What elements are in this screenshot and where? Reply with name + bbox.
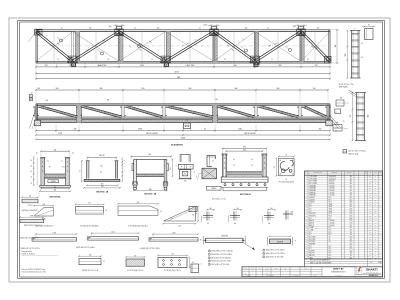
plan left end leader line [29,32,37,43]
svg-text:52.0: 52.0 [369,188,372,190]
svg-text:4.6: 4.6 [329,241,331,243]
section 4A left dimension chain [30,157,37,186]
svg-text:L 75x75x6: L 75x75x6 [329,195,335,197]
svg-text:1 TB6619 156 2 47 TVL 3 T/F 2: 1 TB6619 156 2 47 TVL 3 T/F 2x [20,248,41,250]
detail left of title block [191,263,202,273]
svg-text:1275: 1275 [349,211,352,213]
svg-text:C7: C7 [60,113,62,115]
svg-text:4.6: 4.6 [329,239,331,241]
svg-text:1125: 1125 [349,241,352,243]
svg-text:80.1: 80.1 [369,227,372,229]
plan right end post [329,30,330,63]
bolted plate detail [157,254,194,273]
svg-text:1000: 1000 [349,218,352,220]
svg-text:200x8: 200x8 [329,204,333,206]
svg-text:544: 544 [43,204,46,206]
svg-text:300: 300 [350,176,352,178]
svg-text:29: 29 [307,59,309,61]
svg-text:24: 24 [103,261,105,263]
svg-text:620: 620 [243,150,246,152]
svg-text:968: 968 [177,77,180,79]
svg-text:150x150x10: 150x150x10 [329,178,336,180]
drawing border frame inner [20,22,383,277]
svg-text:1175: 1175 [349,248,352,250]
angle cleat detail 1 [201,208,215,225]
svg-text:46: 46 [368,25,370,27]
svg-text:B4x6 4 B13 x 47 TVL 4 B43 (x): B4x6 4 B13 x 47 TVL 4 B43 (x) [211,257,231,259]
svg-text:OK: OK [379,197,381,199]
right bracket details [333,98,349,131]
svg-text:1,2,3,4: 1,2,3,4 [28,205,33,207]
svg-text:416: 416 [54,149,57,151]
section 4A bottom dims and label [39,187,71,199]
svg-text:C7: C7 [317,113,319,115]
svg-text:140: 140 [209,208,211,210]
svg-text:4x PLT B4 M (150) x B13 (M) 2: 4x PLT B4 M (150) x B13 (M) 2 [128,225,148,227]
elevation top dimension line [35,88,329,92]
svg-text:BOT CHORD: BOT CHORD [309,183,317,185]
svg-text:04/08: 04/08 [266,273,269,275]
plan diagonal member D5 [213,31,255,62]
plan dimension row 3 [35,75,331,80]
svg-text:8.1: 8.1 [369,257,371,259]
drawing names note [22,250,59,256]
svg-text:DECK CHORD: DECK CHORD [244,133,256,135]
svg-text:C7: C7 [238,113,240,115]
svg-text:150: 150 [109,26,112,28]
svg-text:73.6: 73.6 [369,250,372,252]
svg-text:DESCRIPTION: DESCRIPTION [313,172,322,174]
svg-text:242: 242 [374,202,376,204]
svg-text:L 50x50x5: L 50x50x5 [329,225,335,227]
svg-text:200x8: 200x8 [329,206,333,208]
svg-text:L 90x90x6: L 90x90x6 [329,190,335,192]
elevation diagonal E2 [82,105,122,118]
svg-text:25.3: 25.3 [369,204,372,206]
svg-text:PL 6: PL 6 [329,253,332,255]
svg-text:PLT: PLT [309,209,311,211]
svg-text:PLT (175m) (260) (26x4): PLT (175m) (260) (26x4) [279,181,295,183]
svg-text:960: 960 [277,88,280,90]
svg-text:425: 425 [350,185,352,187]
svg-text:W4x6 4 B13 x 47 TVL 1 B43 x: W4x6 4 B13 x 47 TVL 1 B43 x [266,250,285,252]
svg-text:SC: SC [285,268,287,270]
plan vertical web hatched bars [75,32,304,62]
svg-text:350: 350 [350,195,352,197]
svg-text:206: 206 [184,181,186,183]
svg-text:NUT M20: NUT M20 [309,241,315,243]
plan centre line [36,45,330,47]
svg-text:NOTE: PLT 4 x 4 TVL: NOTE: PLT 4 x 4 TVL [339,84,354,86]
angle cleat detail 3 [262,208,276,225]
svg-text:24: 24 [36,152,38,154]
svg-text:225: 225 [374,211,376,213]
svg-text:1,562: 1,562 [111,231,115,233]
svg-text:700: 700 [350,253,352,255]
svg-text:350: 350 [350,243,352,245]
svg-text:PLT: PLT [309,248,311,250]
svg-text:PL 8: PL 8 [329,250,332,252]
svg-text:610: 610 [101,186,104,188]
svg-text:51.5: 51.5 [369,225,372,227]
svg-text:578: 578 [315,65,318,67]
svg-text:DECK CHORD: DECK CHORD [146,133,158,135]
plan view top chord [36,30,330,32]
elevation bottom dimension row 1 [35,124,331,131]
section 3B first bottom dims and label [83,184,120,194]
svg-text:140: 140 [270,208,272,210]
title block drawing title [331,268,346,277]
svg-text:170: 170 [124,166,126,168]
bracket stack detail [176,154,197,182]
svg-text:150: 150 [245,28,248,30]
svg-text:228: 228 [374,199,376,201]
title block small cells text [244,267,317,277]
plan diagonal member D2 [72,31,120,62]
svg-text:STEELWORK TRUSS T1: STEELWORK TRUSS T1 [331,272,346,274]
svg-text:37.6: 37.6 [369,236,372,238]
svg-text:4-6x: 4-6x [336,122,339,124]
small plate with dim 140 [78,255,105,272]
svg-text:150: 150 [157,28,160,30]
svg-text:58.2: 58.2 [369,255,372,257]
length bar detail 1 [200,236,255,251]
svg-text:148: 148 [374,218,376,220]
plan top joint gussets [115,26,305,35]
plan chord annotation speckle [57,28,319,61]
svg-text:29: 29 [251,165,253,167]
section 3B first labels [80,158,126,182]
svg-text:PLT: PLT [309,218,311,220]
svg-text:605: 605 [101,184,104,186]
svg-text:JS-SDC#1 C: JS-SDC#1 C [369,275,380,277]
svg-text:24: 24 [72,152,74,154]
plan left end top gusset [35,29,43,35]
svg-text:SHIM: SHIM [309,257,312,259]
svg-text:1450: 1450 [349,250,352,252]
svg-text:1900: 1900 [140,65,144,67]
svg-text:ELEVATION: ELEVATION [171,143,183,146]
svg-text:160x8: 160x8 [329,211,333,213]
svg-text:DRAFT 'B1': DRAFT 'B1' [333,268,344,271]
svg-text:29: 29 [49,167,51,169]
svg-text:41.8: 41.8 [369,192,372,194]
svg-text:82.9: 82.9 [369,185,372,187]
svg-text:175: 175 [350,255,352,257]
svg-text:40: 40 [207,223,209,225]
elevation right end bearing [326,104,345,133]
svg-text:PLT: PLT [309,232,311,234]
svg-text:4B: 4B [192,214,194,216]
tie bar detail 3 [140,232,199,250]
svg-text:303: 303 [374,213,376,215]
svg-text:545: 545 [137,202,140,204]
company logo [355,267,383,278]
svg-text:M8: M8 [340,98,342,100]
plan thin verticals [54,32,315,62]
right note upper [339,84,354,88]
elevation bottom dimension row 3 [35,137,331,140]
angle cleat detail 2 [228,208,242,225]
section 4A top dimension [36,149,74,157]
svg-text:N: N [306,172,307,174]
svg-text:76.0: 76.0 [369,178,372,180]
triangular gusset detail [163,206,199,228]
section 4A body [40,158,71,188]
tiny clip detail [189,207,197,217]
section 6B top dimension [130,154,172,159]
svg-text:40: 40 [30,160,32,162]
small hatched plate [125,255,145,272]
svg-text:13.6: 13.6 [369,181,372,183]
plan dimension row 1 [35,63,331,68]
svg-text:DECK 1900: DECK 1900 [186,65,195,67]
section 6B feet [133,182,168,190]
svg-text:PLT: PLT [309,246,311,248]
svg-text:PL 6: PL 6 [329,246,332,248]
section 3B first body [84,161,120,182]
svg-text:HE 170: HE 170 [99,155,104,157]
svg-text:CHD: CHD [251,268,254,270]
svg-text:VXB: VXB [30,216,33,218]
svg-text:150: 150 [350,229,352,231]
section 6B body [132,159,169,184]
svg-text:DWG: DWG [304,268,307,270]
svg-text:20: 20 [48,108,50,110]
svg-text:LENGTH: LENGTH [221,236,228,238]
plan diagonal member D1 [35,31,73,62]
svg-text:625: 625 [350,227,352,229]
svg-text:20: 20 [91,108,93,110]
svg-text:4 WTB 302 6 47 TVL 3 G/B 2x: 4 WTB 302 6 47 TVL 3 G/B 2x [76,247,95,249]
svg-text:4B4: 4B4 [291,212,294,214]
svg-text:960: 960 [142,88,145,90]
section 6B bottom dim and label [133,159,173,196]
svg-text:PLT: PLT [309,234,311,236]
svg-text:85.0: 85.0 [369,176,372,178]
svg-text:1 126: 1 126 [69,65,73,67]
elevation diagonal E3 [126,105,163,118]
svg-text:262: 262 [374,227,376,229]
svg-text:314: 314 [374,216,376,218]
svg-text:1125: 1125 [349,213,352,215]
svg-text:4x: 4x [134,28,136,30]
svg-text:20: 20 [304,108,306,110]
svg-text:224: 224 [374,209,376,211]
svg-text:311: 311 [374,241,376,243]
svg-text:337: 337 [374,195,376,197]
svg-text:2180: 2180 [238,129,242,131]
svg-text:OK: OK [379,253,381,255]
svg-text:975: 975 [350,188,352,190]
svg-text:4T: 4T [295,241,297,243]
plan diagonal member D3 [118,31,166,62]
svg-text:25: 25 [343,121,345,123]
svg-text:SECTION - 3B: SECTION - 3B [96,192,109,194]
svg-text:40: 40 [30,171,32,173]
svg-text:700: 700 [350,234,352,236]
svg-text:STIFF PL: STIFF PL [309,250,315,252]
svg-text:OK: OK [379,225,381,227]
tie bar detail 2 [76,231,139,249]
svg-text:173: 173 [374,246,376,248]
elevation top chord [36,104,330,106]
margin plate 1234 detail [21,195,39,212]
svg-text:56: 56 [274,166,276,168]
svg-text:960: 960 [189,88,192,90]
svg-text:C6: C6 [361,43,363,45]
svg-text:TB6619 1762 47 TVL 3 T/F 2x: TB6619 1762 47 TVL 3 T/F 2x [24,225,43,227]
svg-text:150: 150 [37,88,40,90]
elevation vertical posts [35,106,329,123]
svg-text:1175: 1175 [349,220,352,222]
svg-text:775: 775 [350,115,352,118]
svg-text:1025: 1025 [349,209,352,211]
svg-text:96: 96 [134,255,136,257]
svg-text:958: 958 [345,54,347,57]
svg-text:C1: C1 [151,59,153,61]
svg-text:358: 358 [374,223,376,225]
elevation diagonal E6 [259,105,299,118]
bearing pad detail [198,168,217,180]
svg-text:388: 388 [374,229,376,231]
svg-text:B4B6: B4B6 [42,219,46,221]
svg-text:SPLICE PL: SPLICE PL [309,213,316,215]
plan diagonal member D4 [165,31,215,62]
svg-text:1,128: 1,128 [172,232,176,234]
right ladder section upper [345,28,363,79]
elevation bottom dimension row 2 [35,132,331,137]
svg-text:OK: OK [379,188,381,190]
svg-text:PL 2: PL 2 [329,257,332,259]
svg-text:BOLT M16: BOLT M16 [309,239,315,241]
svg-text:C6: C6 [361,57,363,59]
svg-text:SECTION: SECTION [332,172,338,174]
svg-text:968: 968 [279,65,282,67]
svg-text:1300: 1300 [349,202,352,204]
plan peak extension marks [113,24,307,29]
svg-text:140: 140 [100,166,103,168]
svg-text:H4: H4 [46,100,48,102]
section 6G body [221,154,268,191]
svg-text:W4x6 4 B13 x 4T TVL 4 x B43 x: W4x6 4 B13 x 4T TVL 4 x B43 x [211,261,231,263]
svg-text:230: 230 [374,234,376,236]
svg-text:76.9: 76.9 [369,195,372,197]
svg-text:600: 600 [350,257,352,259]
svg-text:GUSSET: GUSSET [309,202,315,204]
svg-text:PLT: PLT [309,206,311,208]
svg-text:4,260: 4,260 [378,262,382,264]
svg-text:150: 150 [317,28,320,30]
elevation diagonal E4 [167,105,214,118]
svg-text:20: 20 [134,108,136,110]
svg-text:450: 450 [350,183,352,185]
section 6G inner labels [233,159,253,167]
svg-text:L 75x75x6: L 75x75x6 [329,192,335,194]
svg-text:175: 175 [80,170,82,172]
svg-text:544: 544 [178,225,181,227]
svg-text:PLT: PLT [309,211,311,213]
svg-text:PL 10: PL 10 [329,213,333,215]
svg-text:BOT CHORD: BOT CHORD [309,181,317,183]
svg-text:1325: 1325 [349,216,352,218]
svg-text:REV: REV [275,268,278,270]
svg-text:150x75x8: 150x75x8 [329,183,335,185]
svg-text:38.0: 38.0 [369,243,372,245]
svg-text:37.2: 37.2 [369,234,372,236]
length bar detail 2 [268,235,297,245]
svg-text:C7: C7 [146,113,148,115]
svg-text:PL 8: PL 8 [329,234,332,236]
svg-text:OK: OK [379,234,381,236]
svg-text:WT: WT [369,172,371,174]
right plug weld note [343,150,366,156]
svg-text:24: 24 [30,183,32,185]
section 4A tag box [48,180,59,183]
svg-text:C7: C7 [104,113,106,115]
svg-text:Filename: JS-SDC#1-TRUSS-T1.dw: Filename: JS-SDC#1-TRUSS-T1.dwg [22,269,46,271]
svg-text:OK: OK [379,243,381,245]
svg-text:TOP CHORD: TOP CHORD [309,176,317,178]
svg-text:5.4: 5.4 [204,129,206,131]
svg-text:700: 700 [350,232,352,234]
svg-text:458: 458 [368,115,370,118]
plan diagonal member D7 [300,31,330,62]
svg-text:72.1: 72.1 [369,197,372,199]
svg-text:TOP CHORD: TOP CHORD [309,178,317,180]
plan view bottom chord [36,61,330,63]
svg-text:4x: 4x [199,28,201,30]
svg-text:170: 170 [29,195,32,197]
svg-text:269: 269 [374,178,376,180]
svg-text:960: 960 [56,88,59,90]
svg-text:4 PLT B4x (150) x B13 (M) 2x: 4 PLT B4x (150) x B13 (M) 2x [80,225,99,227]
elevation diagonal E7 [303,105,327,118]
svg-text:21.7: 21.7 [369,211,372,213]
svg-text:PLAN: PLAN [254,63,260,66]
svg-text:W6x6 4 B13 x 47 TVL 4 x B43 x2: W6x6 4 B13 x 47 TVL 4 x B43 x2 [211,254,232,256]
svg-text:REM: REM [379,172,382,174]
svg-text:L 90x90x6: L 90x90x6 [329,185,335,187]
svg-text:760: 760 [319,129,322,131]
svg-text:HP: HP [107,100,109,102]
notes list left column [208,250,233,266]
svg-text:44: 44 [285,155,287,157]
notched plate detail 3 [117,202,162,227]
svg-text:24: 24 [31,92,33,94]
table continuation rows [305,259,383,267]
svg-text:PL 6: PL 6 [329,255,332,257]
plan right end vertical dimension [330,29,339,64]
svg-text:300: 300 [54,187,57,189]
svg-text:17.8: 17.8 [369,209,372,211]
svg-text:W6x6 4 B13 x 4T TVL 1 B43 x: W6x6 4 B13 x 4T TVL 1 B43 x [266,253,285,255]
svg-text:4x: 4x [267,28,269,30]
right small plate top [362,25,375,40]
svg-text:W4T 5x B13 x 4T TVL x B43: W4T 5x B13 x 4T TVL x B43 [211,264,229,266]
svg-text:(DM) (QD) x B13 MOULD 2: (DM) (QD) x B13 MOULD 2 [22,210,39,212]
svg-text:TOT: TOT [374,172,377,174]
svg-text:1,128: 1,128 [52,232,56,234]
svg-text:DRN: DRN [244,268,247,270]
plan member annotations [45,24,314,51]
flat plate detail 2 [75,203,108,228]
channel clip detail [207,156,216,167]
section 6G label [207,186,252,200]
svg-text:SECTION 4A: SECTION 4A [50,196,61,199]
svg-text:950: 950 [350,190,352,192]
svg-text:TRUSS T1 JS-SDC#1: TRUSS T1 JS-SDC#1 [22,254,36,256]
